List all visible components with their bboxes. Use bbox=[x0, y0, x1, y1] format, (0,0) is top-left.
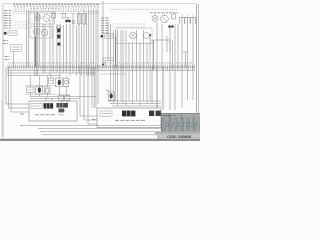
pressure switch B1 bbox=[57, 26, 61, 32]
svg-text:COD. 310808: COD. 310808 bbox=[167, 134, 192, 139]
left terminal labels column bbox=[4, 11, 11, 29]
capacitor C1 bbox=[52, 13, 56, 18]
contactor K6 bbox=[44, 87, 50, 94]
nested routing box right bbox=[154, 40, 171, 70]
left riser wires bbox=[5, 57, 30, 113]
left mid labels bbox=[3, 41, 8, 44]
terminal strip X1 comb bbox=[7, 63, 195, 70]
nested routing corner bbox=[103, 58, 114, 68]
solenoid valve Y1 bbox=[65, 18, 71, 23]
wire stubs below terminal strip left bbox=[35, 67, 87, 76]
wire label 1A bbox=[92, 118, 96, 120]
overload relay F1 bbox=[78, 14, 81, 24]
page bottom shadow bbox=[0, 139, 200, 141]
right legend box SB2 bbox=[101, 34, 114, 38]
solenoid valve Y2 bbox=[168, 25, 173, 28]
control board A1 bbox=[29, 101, 77, 121]
distribution wires bbox=[7, 71, 195, 76]
wire from fuse box bbox=[13, 52, 15, 68]
mid row wires bbox=[25, 86, 96, 99]
contactor K2 coil bbox=[56, 78, 62, 87]
left legend box SB1 bbox=[4, 31, 17, 36]
wire stubs below terminal strip right bbox=[111, 67, 179, 108]
wire bundle left bbox=[27, 10, 99, 108]
watermark logo box bbox=[161, 113, 200, 132]
start relay K8 bbox=[62, 14, 66, 19]
sensor relay K7 bbox=[106, 91, 114, 101]
relay K4 bbox=[27, 87, 35, 93]
motor M5 bbox=[152, 16, 158, 22]
right riser wires bbox=[152, 67, 175, 110]
right label column bbox=[101, 18, 109, 33]
heater R3 bbox=[190, 17, 195, 24]
defrost group box bbox=[116, 28, 152, 44]
contactor K5 coil bbox=[36, 86, 43, 94]
contactor K3 bbox=[64, 78, 69, 86]
junction node bbox=[149, 34, 151, 36]
timer switch S1 bbox=[57, 95, 70, 112]
right terminal labels bbox=[150, 12, 178, 14]
pressure switch B3 bbox=[57, 43, 60, 46]
overload relay F2 bbox=[82, 14, 85, 24]
routing bend right bbox=[183, 52, 188, 67]
junction node 2 bbox=[102, 64, 104, 66]
control board A2 bbox=[97, 108, 161, 128]
dashed link wires bbox=[10, 22, 30, 28]
component feed wires left bbox=[30, 76, 67, 104]
fuse box F3 bbox=[11, 45, 22, 52]
bottom routing wires bbox=[20, 126, 196, 135]
watermark code band bbox=[155, 132, 200, 139]
lamp H2 bbox=[144, 33, 150, 39]
run capacitor C3 bbox=[72, 21, 75, 24]
compressor M6 bbox=[161, 15, 169, 23]
motor M1 bbox=[35, 15, 41, 21]
svg-text:SYSTEM: SYSTEM bbox=[164, 119, 197, 128]
fan motor group box bbox=[30, 12, 55, 24]
lamp H1 bbox=[130, 32, 137, 39]
dashed group outline right bbox=[112, 24, 146, 27]
motor M3 bbox=[34, 29, 40, 35]
fan motor group 2 box bbox=[30, 27, 52, 39]
wire bundle right bbox=[103, 1, 193, 108]
compressor M2 bbox=[43, 15, 50, 22]
border frame bbox=[2, 4, 198, 139]
riser wires between boards bbox=[80, 67, 97, 124]
heater feed stubs bbox=[155, 14, 193, 18]
top terminal labels bbox=[13, 4, 100, 8]
wire drops from top labels bbox=[15, 7, 98, 12]
zigzag dashed feeder bbox=[110, 8, 178, 10]
dashed bus lines bbox=[13, 12, 99, 14]
relay K1 bbox=[49, 78, 54, 83]
right feed wires bbox=[108, 101, 161, 106]
compressor M4 bbox=[41, 29, 48, 36]
capacitor C2 bbox=[172, 14, 176, 19]
pressure switch B2 bbox=[57, 35, 60, 39]
heater R2 bbox=[185, 17, 190, 24]
heater R1 bbox=[179, 17, 184, 24]
wire label 1A left bbox=[20, 113, 24, 115]
